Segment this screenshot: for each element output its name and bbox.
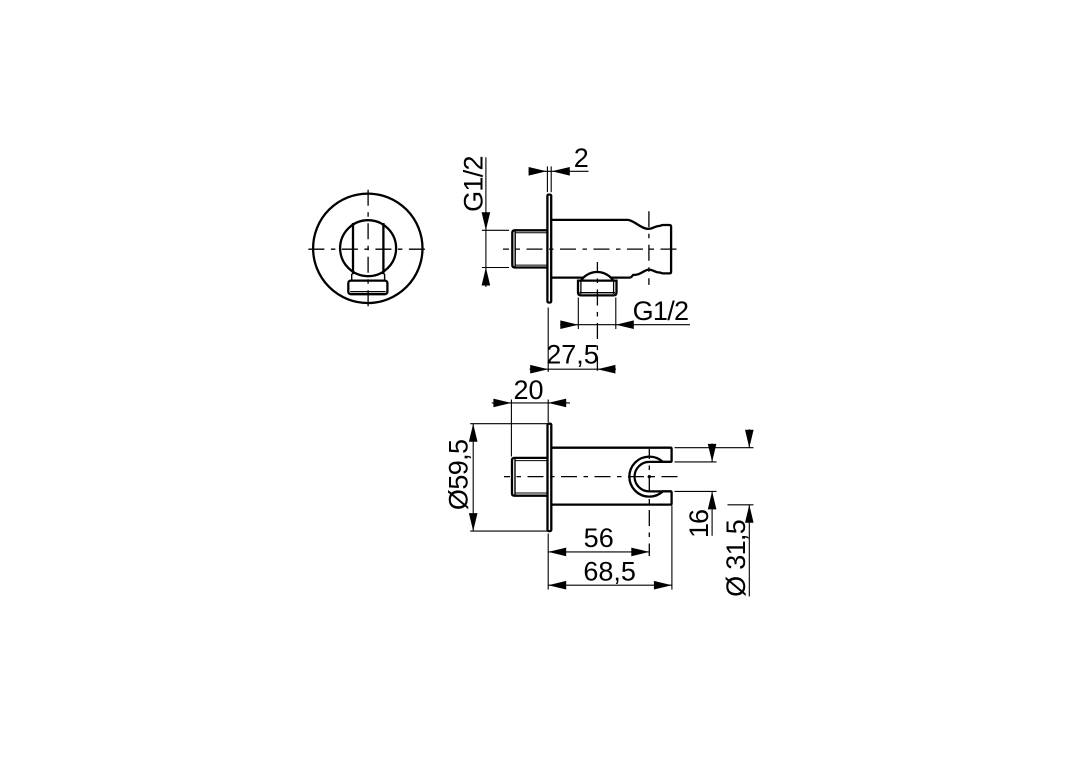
bottom view thread root lines	[515, 461, 548, 493]
side view thread chamfer line	[514, 230, 516, 267]
dimension 2 right arrow	[552, 167, 570, 176]
bottom view cup vertical centerline	[648, 449, 650, 556]
dimension 59,5 bottom arrow	[469, 513, 478, 531]
dimension 68,5 line	[548, 584, 672, 586]
side view outlet vertical centerline	[596, 262, 598, 371]
side view body top profile and end cap	[551, 220, 671, 278]
dimension 31,5 lower line and arrow	[748, 505, 750, 597]
G1/2 top dimension line	[485, 157, 487, 287]
front view hook inner bottom line	[350, 291, 385, 293]
dimension 68,5 right extension line	[671, 506, 673, 590]
bottom view cup inner arc	[635, 462, 672, 492]
G1/2 bottom left arrow	[560, 320, 578, 329]
bottom view cup center dot	[648, 475, 651, 478]
bottom view wall plate	[548, 424, 552, 531]
dimension 59,5 top arrow	[469, 424, 478, 442]
dimension 20 line	[492, 402, 570, 404]
svg-text:27,5: 27,5	[546, 340, 599, 370]
dimension 27,5 right arrow	[597, 365, 615, 374]
svg-text:G1/2: G1/2	[633, 296, 689, 326]
side view thread G1/2	[512, 230, 547, 267]
side view outlet nut chamfer lines	[580, 281, 616, 294]
dimension 16 upper line and arrow	[711, 444, 713, 462]
dimension 27,5 extension line	[547, 308, 549, 373]
dimension 56 right arrow	[631, 548, 649, 557]
side view thread root lines	[515, 233, 547, 265]
dimension diameter 59,5 line	[472, 424, 474, 531]
dimension 2 left arrow	[529, 167, 547, 176]
svg-text:16: 16	[684, 510, 714, 538]
front view vertical centerline	[367, 190, 369, 308]
dimension 56 left arrow	[548, 548, 566, 557]
dimension 56 line	[548, 551, 649, 553]
svg-text:20: 20	[513, 375, 543, 405]
bottom view thread chamfer line	[514, 458, 516, 496]
dimension 31,5 upper line and arrow	[748, 429, 750, 447]
side view holder vertical centerline	[648, 211, 650, 285]
front view horizontal centerline	[308, 248, 427, 250]
G1/2 bottom extension lines	[578, 298, 616, 330]
side view plate extension lines (2mm)	[547, 166, 551, 192]
dimension 16 extension lines	[675, 462, 717, 492]
side view outlet dome	[581, 272, 614, 281]
front view inner circle (holder ring)	[340, 220, 396, 276]
side view body bottom edge right of outlet	[611, 276, 631, 278]
dimension 20 right arrow	[548, 399, 566, 408]
front view hook block	[348, 281, 387, 295]
G1/2 bottom dimension line	[560, 324, 690, 326]
G1/2 top arrow up	[482, 268, 491, 286]
bottom view thread G1/2	[512, 458, 548, 496]
side view wall plate	[547, 195, 551, 303]
dimension 27,5 left arrow	[530, 365, 548, 374]
dimension 2 line	[529, 170, 589, 172]
svg-text:56: 56	[584, 523, 614, 553]
dimension 68,5 right arrow	[654, 581, 672, 590]
front view neck right	[384, 274, 386, 281]
front view outer circle (wall plate)	[313, 194, 422, 303]
dimension 56 left extension line	[547, 534, 549, 590]
dimension 59,5 extension lines	[470, 424, 550, 531]
side view outlet nut	[578, 281, 617, 296]
svg-text:G1/2: G1/2	[458, 156, 488, 212]
dimension 16 lower line and arrow	[711, 491, 713, 535]
svg-text:Ø59,5: Ø59,5	[444, 440, 474, 511]
G1/2 top extension lines	[482, 230, 509, 267]
front view neck left	[351, 274, 353, 281]
svg-text:2: 2	[574, 143, 589, 173]
dimension 20 left arrow	[493, 399, 511, 408]
svg-text:68,5: 68,5	[583, 557, 636, 587]
front view cup left wall	[352, 223, 354, 274]
side view horizontal centerline	[503, 248, 679, 250]
bottom view horizontal centerline	[504, 476, 683, 478]
dimension 20 extension lines	[511, 400, 548, 457]
dimension 27,5 line	[530, 368, 617, 370]
front view cup right wall	[382, 223, 384, 274]
svg-text:Ø 31,5: Ø 31,5	[721, 520, 751, 597]
dimension 68,5 left arrow	[548, 581, 566, 590]
G1/2 bottom right arrow	[616, 320, 634, 329]
side view body bottom edge left of outlet	[551, 276, 583, 278]
bottom view body outline with slot	[551, 448, 671, 505]
dimension diameter 31,5 extension lines	[675, 448, 754, 505]
G1/2 top arrow down	[482, 212, 491, 230]
